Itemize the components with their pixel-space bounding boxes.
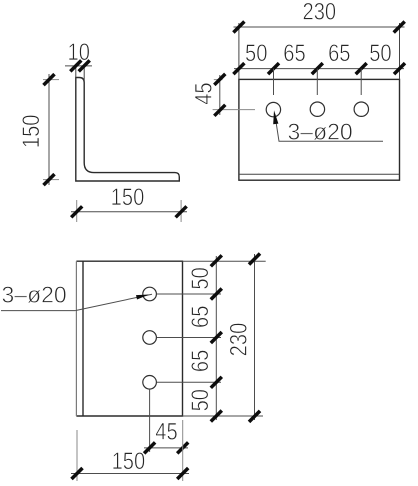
svg-text:45: 45: [191, 82, 218, 104]
svg-text:65: 65: [283, 40, 305, 67]
svg-text:3–ø20: 3–ø20: [2, 282, 67, 308]
svg-text:3–ø20: 3–ø20: [288, 119, 353, 145]
svg-text:50: 50: [245, 40, 267, 67]
svg-text:10: 10: [67, 39, 89, 66]
svg-text:150: 150: [111, 184, 145, 211]
svg-text:65: 65: [187, 350, 214, 372]
svg-text:45: 45: [155, 419, 177, 446]
svg-text:230: 230: [302, 0, 336, 26]
svg-text:150: 150: [18, 114, 45, 148]
svg-text:65: 65: [187, 306, 214, 328]
svg-text:50: 50: [187, 389, 214, 411]
svg-text:150: 150: [112, 448, 146, 475]
svg-text:65: 65: [328, 40, 350, 67]
svg-text:50: 50: [369, 40, 391, 67]
svg-text:50: 50: [187, 267, 214, 289]
svg-text:230: 230: [226, 323, 253, 357]
